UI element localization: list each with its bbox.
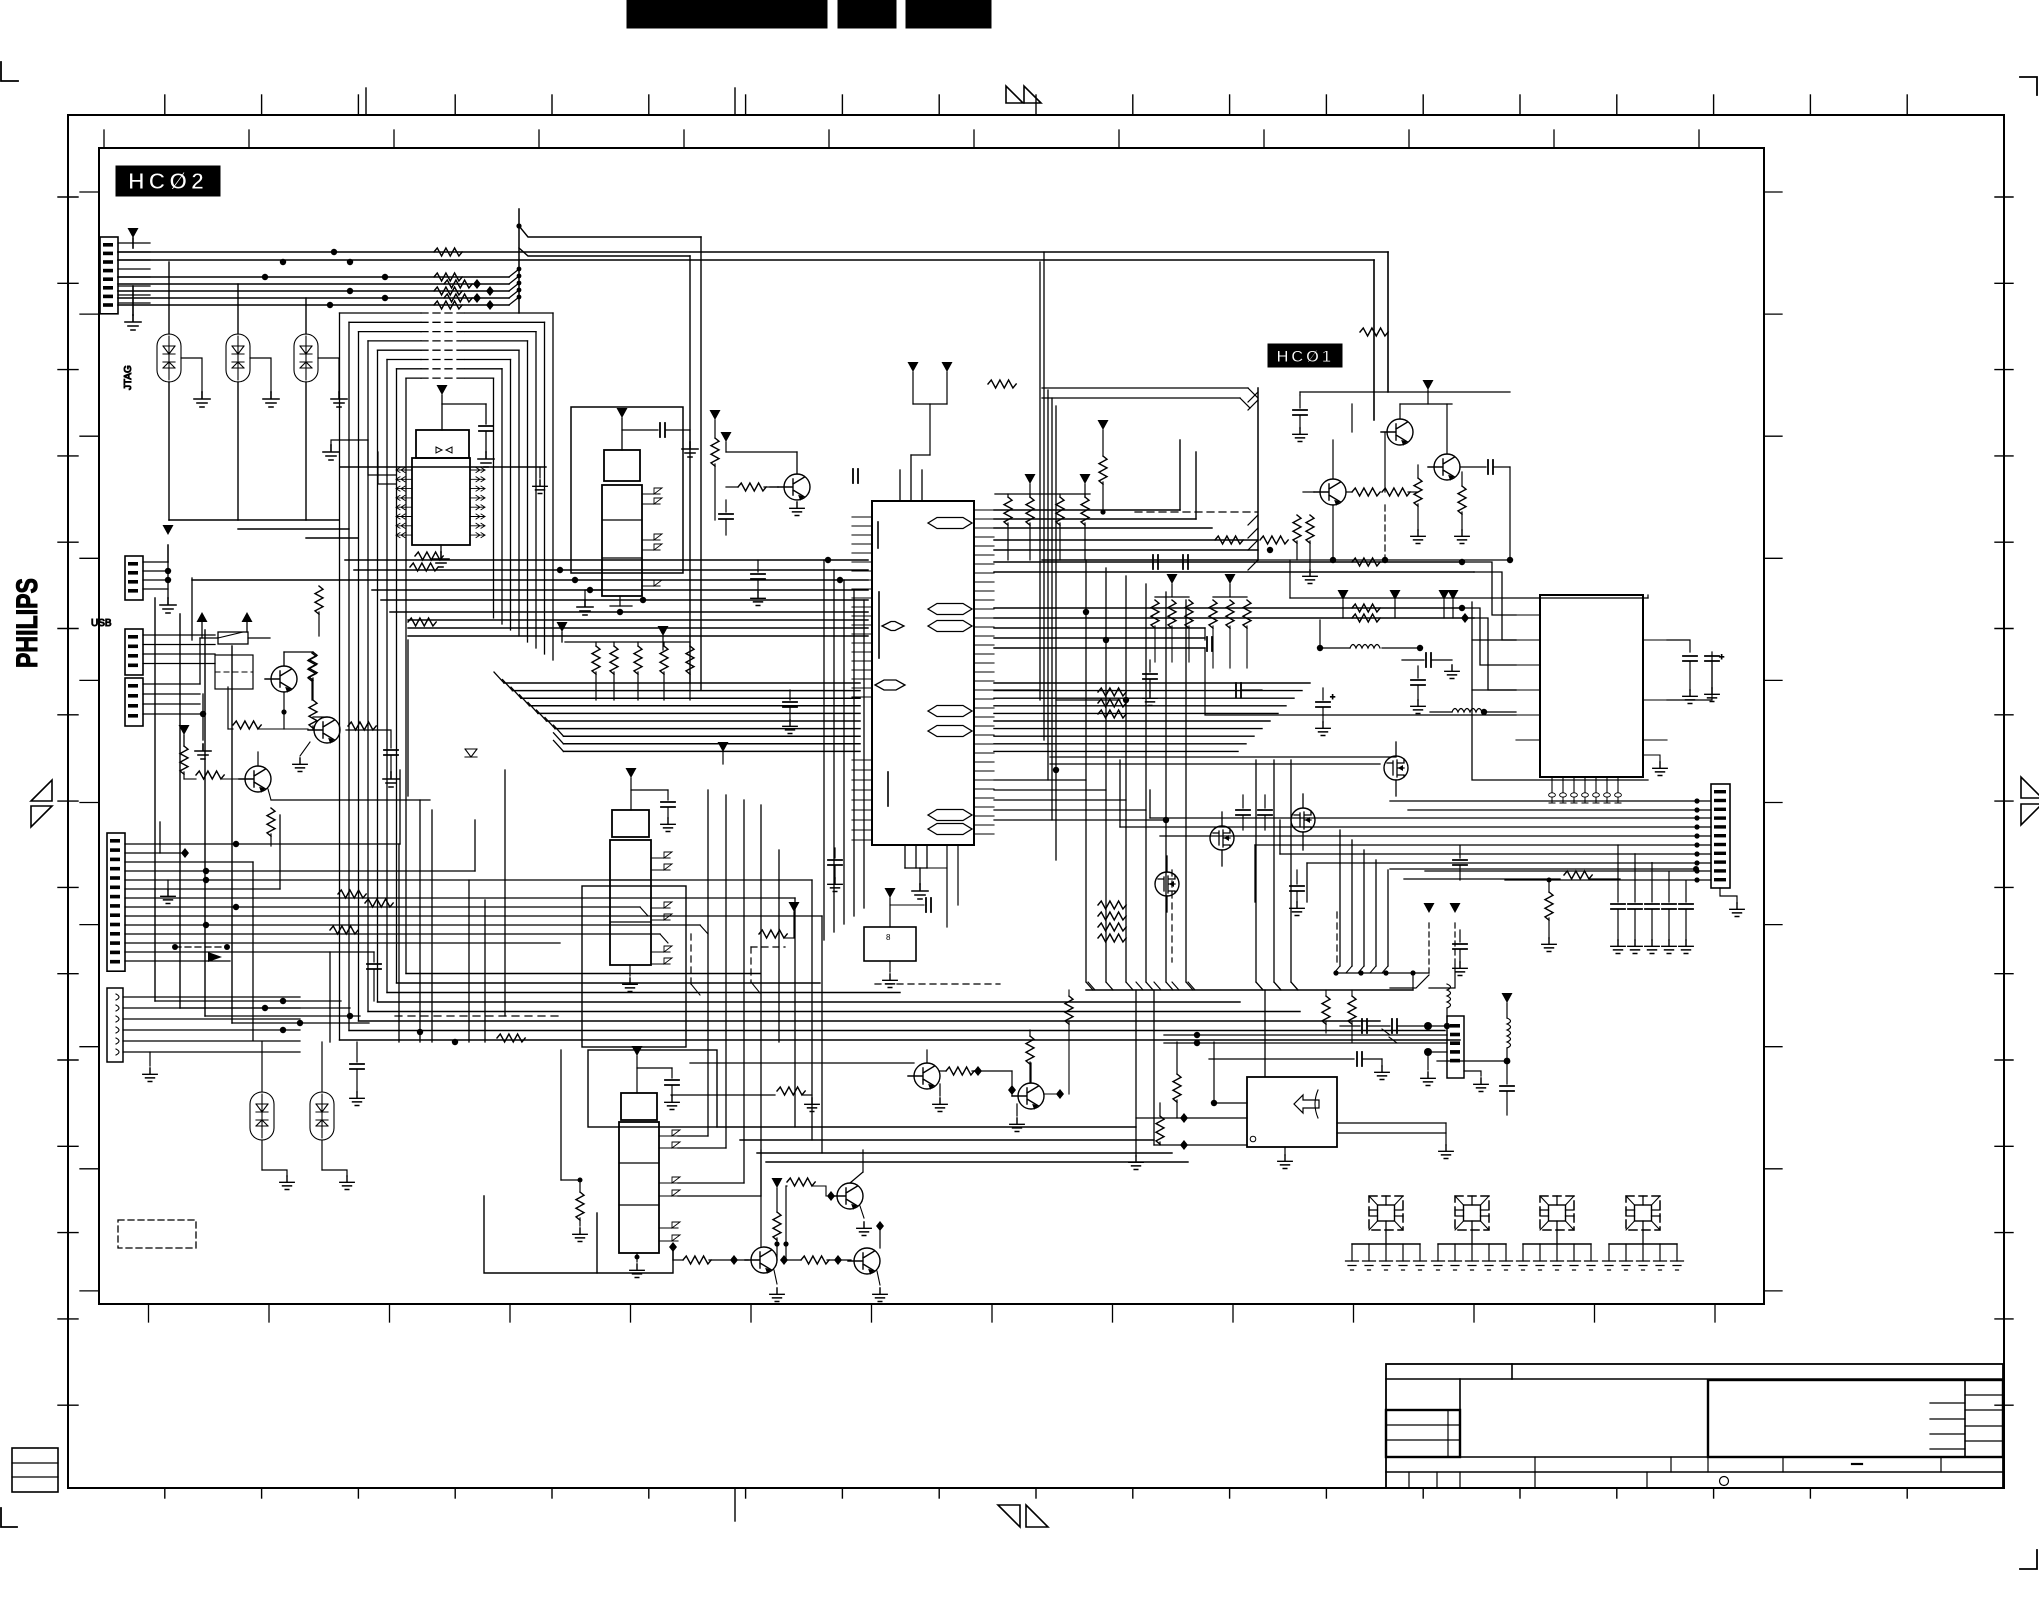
- transistor Q42: [1303, 440, 1346, 506]
- resistor R80: [497, 1034, 525, 1042]
- wires CN31: [1164, 1029, 1510, 1092]
- capacitor C33: [1453, 846, 1467, 880]
- capacitor C81: [828, 848, 842, 892]
- IC U41 regulator: [619, 1093, 680, 1253]
- power arrows above U1: [908, 362, 953, 455]
- centering arrow top: [1006, 86, 1041, 103]
- power arrows RB2: [1025, 474, 1091, 497]
- wire jtag returns: [169, 520, 358, 538]
- capacitor C35: [1402, 653, 1459, 679]
- MOSFET Q30: [1155, 856, 1179, 912]
- capacitor C52: [1683, 656, 1697, 704]
- connector USB: [125, 629, 143, 675]
- dashed verticals bottom: [691, 934, 785, 995]
- resistor R70: [561, 1050, 587, 1242]
- capacitor C82: [783, 690, 797, 734]
- IC U30 IR receiver: [1247, 1077, 1337, 1147]
- transistor Q103: [239, 752, 430, 800]
- power arrow U10: [437, 385, 487, 430]
- resistor R77: [786, 1178, 836, 1260]
- wire stubs connector to bus: [118, 243, 150, 303]
- wires USB out: [143, 635, 215, 759]
- transistor Q41: [1428, 404, 1460, 481]
- wire mid right pair: [1050, 757, 1396, 764]
- resistor R79: [330, 926, 358, 934]
- wire cap row feed: [1390, 866, 1699, 879]
- power arrow U11: [617, 408, 659, 450]
- wire top link: [516, 223, 701, 690]
- ground U20 right: [1643, 755, 1667, 776]
- resistor R44: [1346, 488, 1418, 496]
- title block: [1386, 1364, 2003, 1488]
- capacitor C84: [1143, 660, 1157, 706]
- resistor stack RS2: [1098, 901, 1126, 942]
- wire usb links: [192, 578, 408, 796]
- resistor R74: [671, 1087, 819, 1112]
- diode pair D3: [294, 298, 347, 520]
- transistor Q54: [908, 1050, 947, 1112]
- resistor bank RB4: [1209, 574, 1251, 668]
- capacitor group C30: [1236, 795, 1304, 916]
- resistor Q55 top: [1026, 1030, 1034, 1083]
- dashed verticals mid: [1172, 870, 1337, 962]
- wire bottom feed lines: [717, 1127, 1188, 1162]
- resistor bank RB2: [995, 494, 1090, 560]
- transistor Q52: [745, 1150, 784, 1302]
- power arrows USB: [197, 612, 253, 638]
- capacitor pair C86: [1153, 555, 1188, 569]
- resistor R71: [940, 1066, 1016, 1096]
- sheet label HC01: [1268, 344, 1342, 367]
- wire U10 left links: [340, 440, 546, 484]
- inductor L1: [1317, 645, 1423, 652]
- connector CN31: [1447, 1016, 1464, 1078]
- wire HC01 feeds: [1042, 388, 1258, 562]
- power arrow P3b: [759, 902, 800, 938]
- power arrow at JTAG: [128, 228, 139, 248]
- wires into CN30: [1120, 798, 1711, 882]
- wire fan bundle: [494, 672, 860, 751]
- resistor R102: [228, 687, 308, 729]
- resistor array on top bus: [434, 248, 472, 309]
- frame box U11: [571, 407, 683, 573]
- capacitor C101: [383, 730, 399, 787]
- diode pair D2: [226, 284, 279, 520]
- wire HC01 bus vertical: [1042, 388, 1258, 570]
- resistor R105: [267, 808, 275, 846]
- IC U1 left pins: [852, 517, 872, 840]
- resistor R51: [1542, 878, 1556, 952]
- connector header P3: [125, 678, 143, 726]
- MOSFET Q31: [1210, 812, 1234, 866]
- MOSFET Q32: [1291, 794, 1315, 850]
- capacitor C41: [1460, 460, 1510, 560]
- power arrow U41: [632, 1046, 673, 1093]
- power arrow P3: [179, 725, 190, 746]
- svg-text:+: +: [1719, 652, 1724, 662]
- power arrow U40: [626, 768, 669, 810]
- ground U10: [433, 545, 449, 567]
- resistor R20: [726, 483, 778, 491]
- ground U10 left: [323, 440, 368, 460]
- resistor R50: [1564, 871, 1592, 879]
- resistor R72: [669, 1242, 748, 1265]
- ground stub G1: [533, 467, 547, 494]
- transistor Q55: [1010, 1063, 1044, 1132]
- svg-text:+: +: [1330, 692, 1335, 702]
- ground U11: [577, 590, 632, 615]
- wire right band A: [994, 440, 1474, 648]
- resistor R64: [1348, 990, 1356, 1042]
- wire right band B: [994, 683, 1310, 990]
- inductor L4: [1444, 984, 1451, 1029]
- dashed segment band: [395, 1015, 560, 1017]
- transistor Q101: [265, 652, 313, 715]
- IC U20 power regulator: [1516, 595, 1667, 803]
- transistor Q102: [293, 717, 390, 772]
- resistor R75: [772, 1178, 789, 1260]
- capacitor row CR1: [1611, 845, 1693, 954]
- capacitor C11: [660, 423, 698, 457]
- capacitor C34: [1453, 930, 1467, 976]
- capacitor C61: [1357, 1052, 1389, 1080]
- transistor Q53: [848, 1221, 887, 1302]
- wire band bottom left: [340, 974, 1461, 1041]
- wires CN2: [125, 770, 822, 1153]
- diode pair D10: [250, 1042, 294, 1190]
- resistor R101: [309, 652, 317, 700]
- dots band: [262, 998, 458, 1045]
- capacitor C40: [1293, 395, 1307, 442]
- resistors right band: [1215, 328, 1388, 622]
- centering arrow right: [2021, 777, 2039, 825]
- revision box: [12, 1448, 58, 1492]
- resistor R103: [180, 746, 188, 779]
- centering arrow left: [31, 780, 52, 827]
- resistor R42: [1293, 515, 1301, 560]
- capacitor C73: [367, 952, 381, 1001]
- resistor R40: [1411, 465, 1425, 544]
- resistor stack RS1: [1098, 688, 1126, 718]
- wire centre verticals: [1040, 252, 1193, 990]
- diode pair D1: [157, 262, 210, 520]
- junction dots top bus: [262, 249, 388, 308]
- resistor R60: [1173, 1042, 1188, 1123]
- capacitor C50: [1316, 688, 1335, 736]
- sheet label HC02: [116, 166, 220, 196]
- IC U1 bottom ground: [905, 845, 928, 899]
- capacitor C85: [1236, 683, 1262, 697]
- wire top bus line 2: [118, 260, 1374, 420]
- wire hc01 to right top: [1290, 560, 1516, 690]
- transistor Q1: [770, 452, 810, 516]
- wire U20 box: [1290, 595, 1712, 780]
- resistor R73: [780, 1255, 851, 1265]
- IC U10 serial flash: [396, 430, 485, 545]
- diode pair D11: [310, 1042, 354, 1190]
- resistor R14: [308, 653, 316, 700]
- resistor R11: [408, 618, 436, 626]
- resistor R76: [1044, 990, 1073, 1099]
- crystal filter bank: [1346, 1196, 1684, 1270]
- power arrow HC01: [1400, 380, 1452, 404]
- power arrow RB1: [557, 622, 568, 642]
- capacitor C20: [719, 500, 733, 535]
- wire top bus group: [118, 267, 521, 305]
- ground U41: [630, 1253, 644, 1278]
- resistor R11b: [415, 552, 443, 560]
- svg-text:8: 8: [886, 933, 891, 942]
- capacitor C70: [350, 1042, 364, 1106]
- diode D4: [465, 749, 477, 757]
- resistor R82: [988, 380, 1016, 388]
- IC U40 regulator: [610, 810, 672, 965]
- IC U1 main processor: [872, 455, 974, 845]
- svg-text:JTAG: JTAG: [123, 365, 134, 390]
- dots centre verticals: [1053, 609, 1169, 823]
- capacitor C83: [1205, 628, 1212, 651]
- wire node line: [1086, 970, 1429, 990]
- wires U30: [1129, 990, 1453, 1170]
- wire below U1: [905, 845, 958, 927]
- capacitor C10: [478, 404, 494, 467]
- power arrows dashed: [1390, 903, 1461, 988]
- header redaction bar 2: [838, 0, 896, 28]
- wire right lower verticals: [1334, 830, 1388, 973]
- resistor R13: [315, 586, 323, 636]
- inductor L2: [1430, 709, 1516, 716]
- connector CN3: [107, 988, 123, 1062]
- transistor Q50: [831, 1150, 871, 1236]
- wire left vertical drops: [330, 800, 432, 1042]
- dashed option box: [118, 1220, 196, 1248]
- connector JTAG: [100, 237, 134, 390]
- capacitor C80: [751, 560, 765, 606]
- resistor R12: [710, 410, 721, 520]
- wires P2: [143, 525, 176, 613]
- capacitor C60: [1340, 1019, 1447, 1033]
- svg-text:PHILIPS: PHILIPS: [11, 578, 44, 668]
- connector CN2: [107, 833, 125, 971]
- connector CN30: [1711, 784, 1744, 917]
- resistor R61: [1156, 1103, 1188, 1150]
- wire HC01 links: [1258, 392, 1513, 563]
- inductor L5: [1500, 993, 1514, 1115]
- dashed matching box USB: [215, 655, 253, 689]
- wire left IC verticals: [824, 560, 864, 940]
- capacitor C51: [1411, 666, 1425, 714]
- svg-text:HCØ1: HCØ1: [1276, 347, 1333, 366]
- ground at JTAG connector: [125, 286, 141, 330]
- connector header P2: [125, 556, 143, 600]
- wire left long verticals: [155, 598, 369, 1023]
- resistor R10: [396, 563, 438, 571]
- centering arrow bottom: [998, 1505, 1048, 1527]
- junction dots mid band: [557, 557, 843, 615]
- wire misc right of U1: [994, 690, 1166, 820]
- transistor Q40: [1381, 404, 1413, 446]
- capacitor C21: [853, 469, 858, 483]
- diamond junctions top bus: [473, 279, 494, 310]
- capacitor C72: [665, 1068, 679, 1110]
- sheet frame inner border: [80, 130, 1782, 1322]
- wire bottom transistor links: [690, 1062, 914, 1064]
- junction verticals CN30: [1120, 760, 1307, 902]
- resistor R63: [1322, 990, 1330, 1033]
- IC U42 crystal driver: [864, 888, 931, 988]
- USB series resistor box: [200, 632, 270, 644]
- capacitor C53: [1705, 652, 1724, 702]
- resistor R43: [1303, 515, 1317, 584]
- capacitor C71: [661, 790, 675, 832]
- resistor R104: [184, 771, 239, 779]
- wire mid band: [192, 560, 868, 636]
- dashed band stub: [875, 983, 1000, 985]
- dots right band: [1267, 547, 1469, 623]
- power arrow P2b: [718, 742, 729, 764]
- ground U40: [623, 965, 637, 992]
- resistor R78: [338, 890, 393, 907]
- resistor R81: [1098, 420, 1109, 515]
- frame box U40: [582, 886, 686, 1047]
- svg-text:USB: USB: [91, 618, 112, 629]
- MOSFET Q33: [1384, 742, 1408, 796]
- IC U1 right pins: [974, 510, 994, 834]
- wire U20 feed jogs: [1205, 562, 1516, 715]
- IC U11 pins: [642, 488, 662, 586]
- power arrow P1: [658, 626, 669, 650]
- wires CN3: [123, 997, 300, 1082]
- header redaction bar 1: [627, 0, 827, 28]
- svg-text:HCØ2: HCØ2: [128, 168, 208, 194]
- resistor R41: [1455, 472, 1469, 544]
- wire top bus line 1: [118, 252, 1388, 392]
- resistor bank RB1: [565, 642, 694, 700]
- resistor bank RB3: [1151, 574, 1193, 662]
- wire Q1 bias: [721, 432, 798, 452]
- frame box U41: [484, 1050, 717, 1273]
- IC U11 interface: [602, 450, 642, 596]
- wire band verticals: [399, 770, 779, 1196]
- power arrows U20: [1338, 590, 1459, 618]
- resistor R101b: [309, 700, 317, 730]
- wire loop bus from top: [340, 209, 554, 1040]
- header redaction bar 3: [906, 0, 991, 28]
